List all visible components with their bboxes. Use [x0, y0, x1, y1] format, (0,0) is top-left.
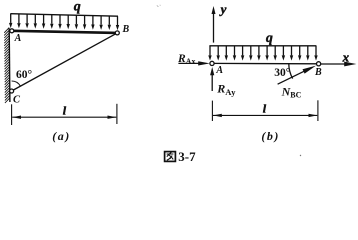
svg-text:(a): (a)	[52, 129, 71, 143]
svg-text:B: B	[314, 67, 322, 78]
svg-text:y: y	[219, 2, 227, 17]
dimension line l (figure a)	[12, 104, 117, 125]
beam AB (figure b)	[212, 62, 319, 64]
caption: hand-drawn CJK glyph for TU (figure)	[165, 152, 176, 162]
svg-text:3-7: 3-7	[178, 149, 196, 164]
angle arc 60 deg at C (figure a)	[12, 81, 21, 86]
svg-text:30°: 30°	[274, 67, 291, 79]
dimension line l (figure b)	[212, 100, 318, 121]
beam AB (figure a)	[12, 31, 118, 33]
fixed wall with hatching (figure a)	[8, 28, 11, 102]
y axis with arrow	[212, 6, 216, 43]
x axis with arrow	[321, 62, 357, 67]
angle arc 30 deg at B (figure b)	[289, 64, 293, 79]
reaction R_Ax arrow at A	[178, 61, 209, 65]
distributed load q on beam AB (figure b)	[208, 46, 317, 61]
svg-text:q: q	[74, 0, 81, 15]
svg-text:B: B	[122, 24, 130, 35]
svg-text:q: q	[266, 31, 273, 46]
pin C (figure a)	[10, 89, 14, 93]
svg-text:60°: 60°	[16, 69, 33, 81]
pin B (figure a)	[115, 31, 119, 35]
stray dot	[300, 155, 301, 156]
reaction R_Ay arrow at A	[210, 67, 214, 91]
svg-text:(b): (b)	[261, 129, 280, 143]
stray speck	[157, 5, 161, 7]
pin B (figure b)	[317, 62, 321, 66]
bar BC (figure a)	[12, 33, 118, 91]
pin A (figure b)	[210, 61, 214, 65]
svg-text:A: A	[215, 65, 223, 76]
pin A (figure a)	[10, 29, 14, 33]
distributed load q on beam AB (figure a)	[9, 14, 119, 31]
svg-text:A: A	[14, 33, 22, 44]
svg-text:x: x	[342, 49, 350, 64]
bar force N_BC arrow at B	[278, 66, 316, 85]
svg-text:C: C	[13, 94, 21, 105]
